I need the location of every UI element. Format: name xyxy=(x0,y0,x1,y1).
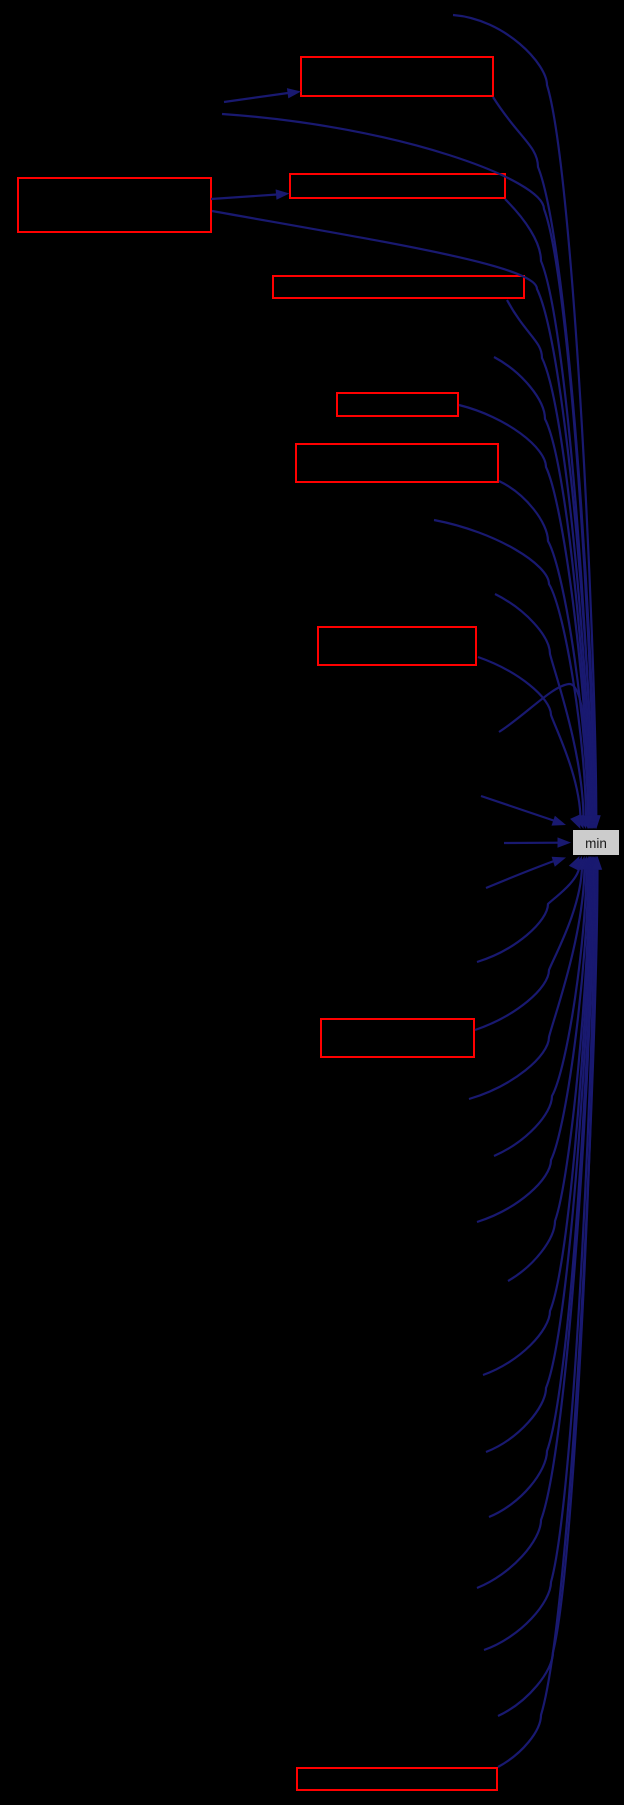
node min xyxy=(573,830,619,855)
edge b11 to min xyxy=(477,865,594,1588)
node B xyxy=(18,178,211,232)
edge E to min xyxy=(459,405,589,820)
edge b2 to min xyxy=(477,865,580,962)
edge D to min xyxy=(507,300,591,820)
edge t1 to min xyxy=(453,15,596,820)
edge t12 to min xyxy=(434,520,586,820)
edge U1 to A xyxy=(224,93,288,102)
edge b9 to min xyxy=(486,865,592,1452)
edge G to min xyxy=(478,657,581,820)
edge B to min xyxy=(212,211,593,820)
edge F to min xyxy=(499,481,588,820)
edge b5 to min xyxy=(494,865,587,1156)
edge b8 to min xyxy=(483,865,591,1375)
edge b1 diagonal to min bottomleft xyxy=(486,861,554,888)
edge t3 to min xyxy=(222,114,594,820)
edge b6 to min xyxy=(477,865,588,1222)
node D xyxy=(273,276,524,298)
edge H to min xyxy=(475,865,582,1030)
edge t17 horizontal to min xyxy=(504,842,559,844)
edge b13 to min xyxy=(498,865,596,1716)
edge A to min xyxy=(493,97,595,820)
node A xyxy=(301,57,493,96)
node E xyxy=(337,393,458,416)
node G xyxy=(318,627,476,665)
node H xyxy=(321,1019,474,1057)
edge t16 diagonal to min topleft xyxy=(481,796,555,821)
edge b10 to min xyxy=(489,865,593,1517)
edge b12 to min xyxy=(484,865,595,1650)
edge C to min xyxy=(505,199,592,820)
node I xyxy=(297,1768,497,1790)
edge I to min xyxy=(498,865,598,1767)
node F xyxy=(296,444,498,482)
edge B to C xyxy=(211,195,277,200)
edge b7 to min xyxy=(508,865,590,1281)
node C xyxy=(290,174,505,198)
edge b4 to min xyxy=(469,865,585,1099)
svg-text:min: min xyxy=(585,836,607,851)
edge t9 to min xyxy=(494,357,590,820)
edge t13 to min xyxy=(495,594,584,820)
edge t15 hump to min xyxy=(499,684,588,812)
